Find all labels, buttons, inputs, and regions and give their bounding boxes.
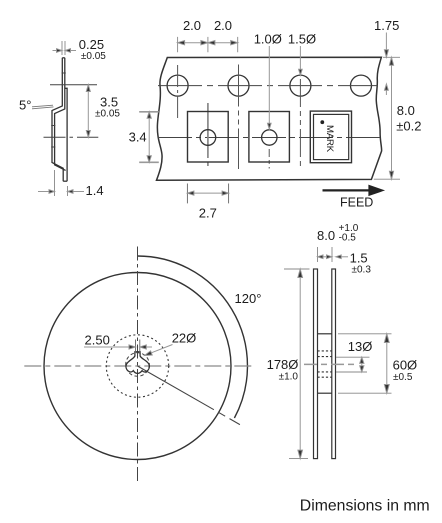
pocket 3 inner [314, 114, 349, 159]
hidden line 13 dia bottom [318, 371, 332, 373]
dimension 3.4 line with arrows [147, 112, 151, 163]
hub bottom line [318, 392, 332, 394]
hidden line 13 dia top [318, 356, 332, 358]
1.75 arrow up to hole center [385, 84, 389, 95]
5° leader lines [32, 105, 54, 109]
hub small dashed circle [126, 353, 150, 377]
svg-text:±0.5: ±0.5 [393, 372, 413, 383]
vertical centerline hole 3 column [299, 79, 301, 169]
dimension 2.7 line with arrows [187, 191, 228, 195]
1.0Ø leader with arrow [268, 46, 272, 129]
pocket 2 center hole [262, 130, 277, 145]
svg-text:2.0: 2.0 [214, 18, 232, 33]
profile wall tick marks [51, 73, 66, 147]
dimension 8.0 arrows [318, 255, 333, 259]
1.5Ø leader with arrow [299, 46, 303, 75]
vertical centerline pocket 2 below circle [268, 149, 270, 169]
svg-text:2.0: 2.0 [183, 18, 201, 33]
svg-text:8.0: 8.0 [397, 103, 415, 118]
dimension 60Ø extension lines [338, 334, 392, 393]
svg-text:22Ø: 22Ø [172, 331, 197, 346]
svg-text:±1.0: ±1.0 [279, 372, 299, 383]
dimension 13Ø arrows [360, 357, 364, 372]
dimension 1.4 extension lines [55, 170, 68, 196]
sprocket hole 2 [228, 75, 249, 96]
hub dotted circle 22Ø [106, 335, 168, 397]
FEED arrow [323, 186, 382, 194]
vertical centerline hole 2 column [238, 65, 240, 170]
tape profile inner line [55, 58, 66, 171]
sprocket row centerline [158, 85, 378, 87]
svg-text:1.75: 1.75 [374, 18, 399, 33]
dimension 13Ø extension lines [336, 357, 370, 372]
svg-text:120°: 120° [235, 291, 262, 306]
reel horizontal centerline [24, 365, 252, 367]
svg-text:±0.05: ±0.05 [95, 109, 120, 120]
vertical centerline hole 1 [177, 65, 179, 119]
svg-text:2.50: 2.50 [85, 333, 110, 348]
1.75 leader arrow down [384, 33, 388, 58]
dimension 8.0±0.2 line with arrows [389, 57, 393, 179]
tape profile right wall [65, 88, 67, 181]
pocket 1 center hole [200, 130, 216, 146]
dimension 0.25 arrows [53, 49, 77, 53]
sprocket-hole level tick line [50, 84, 97, 86]
hidden line 22 dia top [318, 350, 332, 352]
svg-text:±0.2: ±0.2 [396, 119, 421, 134]
svg-text:178Ø: 178Ø [267, 357, 299, 372]
reel outer circle [44, 273, 231, 460]
dimension 178Ø ticks [284, 269, 310, 459]
svg-text:3.5: 3.5 [100, 95, 118, 110]
svg-text:13Ø: 13Ø [348, 339, 373, 354]
dimension 178Ø line with arrows [298, 269, 303, 459]
22Ø leader arrow [145, 345, 173, 356]
sprocket hole 4 [351, 75, 372, 96]
svg-text:±0.05: ±0.05 [81, 51, 106, 62]
120° reference diagonal centerline [138, 366, 240, 425]
svg-text:1.5Ø: 1.5Ø [288, 32, 316, 47]
sprocket hole 3 [290, 75, 311, 96]
tape profile top cap [62, 57, 65, 59]
120° arc [138, 256, 248, 418]
tape profile bottom cap [63, 180, 67, 182]
pocket centerline (side view) [44, 136, 99, 138]
svg-text:1.5: 1.5 [350, 251, 368, 266]
dimension 3.5 line with arrows [86, 85, 90, 138]
svg-text:1.4: 1.4 [86, 183, 104, 198]
hidden line 22 dia bottom [318, 376, 332, 378]
hub keyed hole [126, 352, 149, 374]
dimension 1.5 arrow [336, 255, 348, 259]
svg-text:MARK: MARK [324, 125, 335, 153]
svg-text:0.25: 0.25 [79, 37, 104, 52]
tape profile outer line [52, 58, 63, 181]
svg-text:2.7: 2.7 [199, 206, 217, 221]
tape outline with torn edges [157, 57, 382, 180]
svg-text:1.0Ø: 1.0Ø [254, 32, 282, 47]
dimension 2.50 arrows [84, 345, 152, 349]
dimension 2.0/2.0 arrows [178, 41, 238, 45]
hub top line [318, 333, 332, 335]
dimension 8.0 extension lines [318, 247, 333, 262]
vertical centerline pocket 1 column [207, 103, 209, 169]
svg-text:Dimensions in mm: Dimensions in mm [300, 498, 430, 515]
dimension 60Ø line with arrows [384, 334, 389, 393]
pocket 3 polarity dot [320, 120, 324, 124]
svg-text:3.4: 3.4 [129, 130, 147, 145]
dimension 0.25 extension lines [62, 41, 65, 55]
dimension 2.50 extension lines [136, 340, 140, 354]
dimension 8.0±0.2 extension ticks [374, 57, 400, 179]
dimension 2.0/2.0 extension lines [178, 37, 238, 52]
left flange [314, 269, 318, 459]
right flange [332, 269, 336, 459]
svg-text:±0.3: ±0.3 [352, 265, 372, 276]
dimension 2.7 extension lines [187, 184, 228, 204]
svg-text:-0.5: -0.5 [339, 233, 357, 244]
svg-text:60Ø: 60Ø [393, 358, 418, 373]
pocket 1 [188, 112, 229, 163]
reel axis centerline [304, 363, 356, 365]
dimension 3.4 extension ticks [139, 112, 159, 163]
svg-text:8.0: 8.0 [317, 228, 335, 243]
svg-text:5°: 5° [19, 98, 31, 113]
pocket 3 outer [310, 111, 351, 163]
pocket row centerline [158, 137, 380, 139]
reel vertical centerline [137, 247, 139, 484]
sprocket hole 1 [167, 75, 188, 96]
dimension 1.4 arrows [38, 190, 84, 194]
svg-text:FEED: FEED [340, 196, 373, 210]
pocket 2 [249, 112, 290, 163]
